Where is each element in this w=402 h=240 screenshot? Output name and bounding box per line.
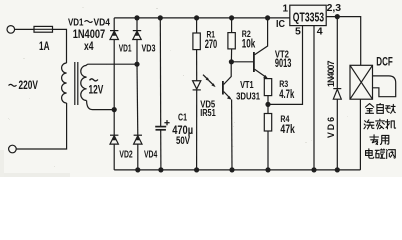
- transformer core: [74, 62, 76, 105]
- node VD3 top bus junction: [134, 15, 139, 20]
- svg-text:VD1: VD1: [119, 43, 132, 55]
- resistor R4: [264, 104, 271, 169]
- node VD5 ground junction: [194, 167, 199, 172]
- fuse FU 1A: [34, 26, 53, 32]
- svg-text:VD2: VD2: [119, 149, 132, 161]
- node VT2 collector bus junction: [265, 15, 270, 20]
- svg-text:VD6: VD6: [326, 117, 336, 138]
- capacitor C1 wire top: [159, 18, 161, 127]
- VD5 emission arrows: [203, 75, 216, 87]
- wire secondary top to VD3/VD4 node: [87, 64, 137, 65]
- node C1 top bus junction: [158, 15, 163, 20]
- bottom ground bus: [114, 169, 360, 171]
- wire fuse to transformer primary: [53, 29, 67, 63]
- diode VD6: [333, 17, 341, 170]
- node VT1 collector / R2 / VT2 base junction: [229, 59, 234, 64]
- node secondary-top junction: [134, 62, 139, 67]
- svg-text:x4: x4: [84, 41, 94, 53]
- node secondary-bottom junction: [112, 107, 117, 112]
- terminal bottom-left: [9, 145, 17, 153]
- node pin4 ground junction: [311, 167, 316, 172]
- node R3/R4 junction: [265, 102, 270, 107]
- terminal top-left: [7, 26, 15, 34]
- op IC U1 QT3353: [290, 5, 326, 25]
- svg-text:IC: IC: [276, 18, 285, 30]
- diode VD4: [134, 64, 142, 170]
- wire IC pin4 to ground: [313, 26, 315, 170]
- resistor R2: [228, 18, 235, 62]
- node R4 ground junction: [265, 167, 270, 172]
- node C1 ground junction: [158, 167, 163, 172]
- wire primary bottom to terminal: [16, 103, 67, 149]
- LED VD5: [193, 81, 201, 170]
- node VD6 ground junction: [335, 167, 340, 172]
- resistor R3: [264, 79, 271, 105]
- node R1 top bus junction: [194, 15, 199, 20]
- svg-text:4: 4: [317, 25, 323, 37]
- wire valve bottom to ground: [359, 99, 361, 170]
- label ~12V: [90, 79, 98, 81]
- svg-text:220V: 220V: [19, 78, 38, 92]
- svg-text:QT3353: QT3353: [293, 10, 324, 25]
- svg-text:50V: 50V: [176, 135, 190, 147]
- label 电磁阀 (hand-drawn): [366, 149, 396, 159]
- diode VD1: [110, 18, 118, 110]
- svg-text:47k: 47k: [280, 124, 295, 136]
- svg-text:2,3: 2,3: [327, 2, 342, 14]
- paper background: [0, 0, 402, 177]
- node pin2,3 / VD6 junction: [335, 14, 340, 19]
- node VT1 emitter ground junction: [229, 167, 234, 172]
- wire base VT2: [231, 61, 253, 63]
- wire junction to IC pin5: [268, 26, 303, 105]
- node R2 top bus junction: [229, 15, 234, 20]
- valve outlet pipe: [373, 76, 396, 97]
- capacitor C1: [155, 120, 169, 130]
- label ~220V: [9, 84, 17, 86]
- scan noise speckles: [8, 7, 348, 167]
- svg-text:270: 270: [205, 37, 218, 51]
- transformer T secondary winding: [81, 65, 87, 100]
- diode VD3: [133, 18, 141, 64]
- wire secondary bottom to VD1/VD2 node: [87, 101, 115, 110]
- svg-text:DCF: DCF: [376, 57, 393, 69]
- svg-text:5: 5: [295, 25, 301, 37]
- svg-text:VD4: VD4: [144, 149, 157, 161]
- wire C1 bottom: [160, 130, 162, 170]
- label 专用 (hand-drawn): [370, 135, 389, 145]
- label 洗衣机 (hand-drawn): [364, 119, 396, 129]
- svg-text:10k: 10k: [242, 36, 256, 50]
- svg-text:1A: 1A: [39, 41, 50, 53]
- label 全自动 (hand-drawn): [365, 104, 395, 114]
- svg-text:9013: 9013: [275, 58, 292, 70]
- svg-text:C1: C1: [178, 112, 187, 124]
- svg-text:1N4007: 1N4007: [326, 60, 336, 87]
- transistor VT2: [254, 18, 268, 79]
- transformer T primary winding: [62, 63, 67, 103]
- svg-text:VD3: VD3: [142, 43, 156, 55]
- wire IC pins 2,3 to valve: [326, 17, 361, 66]
- svg-text:IR51: IR51: [200, 107, 216, 119]
- svg-text:VT1: VT1: [240, 79, 254, 91]
- svg-text:1: 1: [283, 4, 289, 15]
- node VD4 ground junction: [135, 167, 140, 172]
- diode VD2: [110, 110, 118, 170]
- svg-text:12V: 12V: [89, 83, 104, 97]
- resistor R1: [193, 18, 200, 81]
- svg-text:1N4007: 1N4007: [73, 27, 106, 41]
- phototransistor VT1: [223, 62, 232, 170]
- solenoid valve DCF: [350, 65, 373, 99]
- top +12V bus: [114, 17, 290, 19]
- svg-text:3DU31: 3DU31: [236, 91, 260, 103]
- wire terminal to fuse: [15, 28, 34, 30]
- svg-text:4.7k: 4.7k: [279, 89, 295, 101]
